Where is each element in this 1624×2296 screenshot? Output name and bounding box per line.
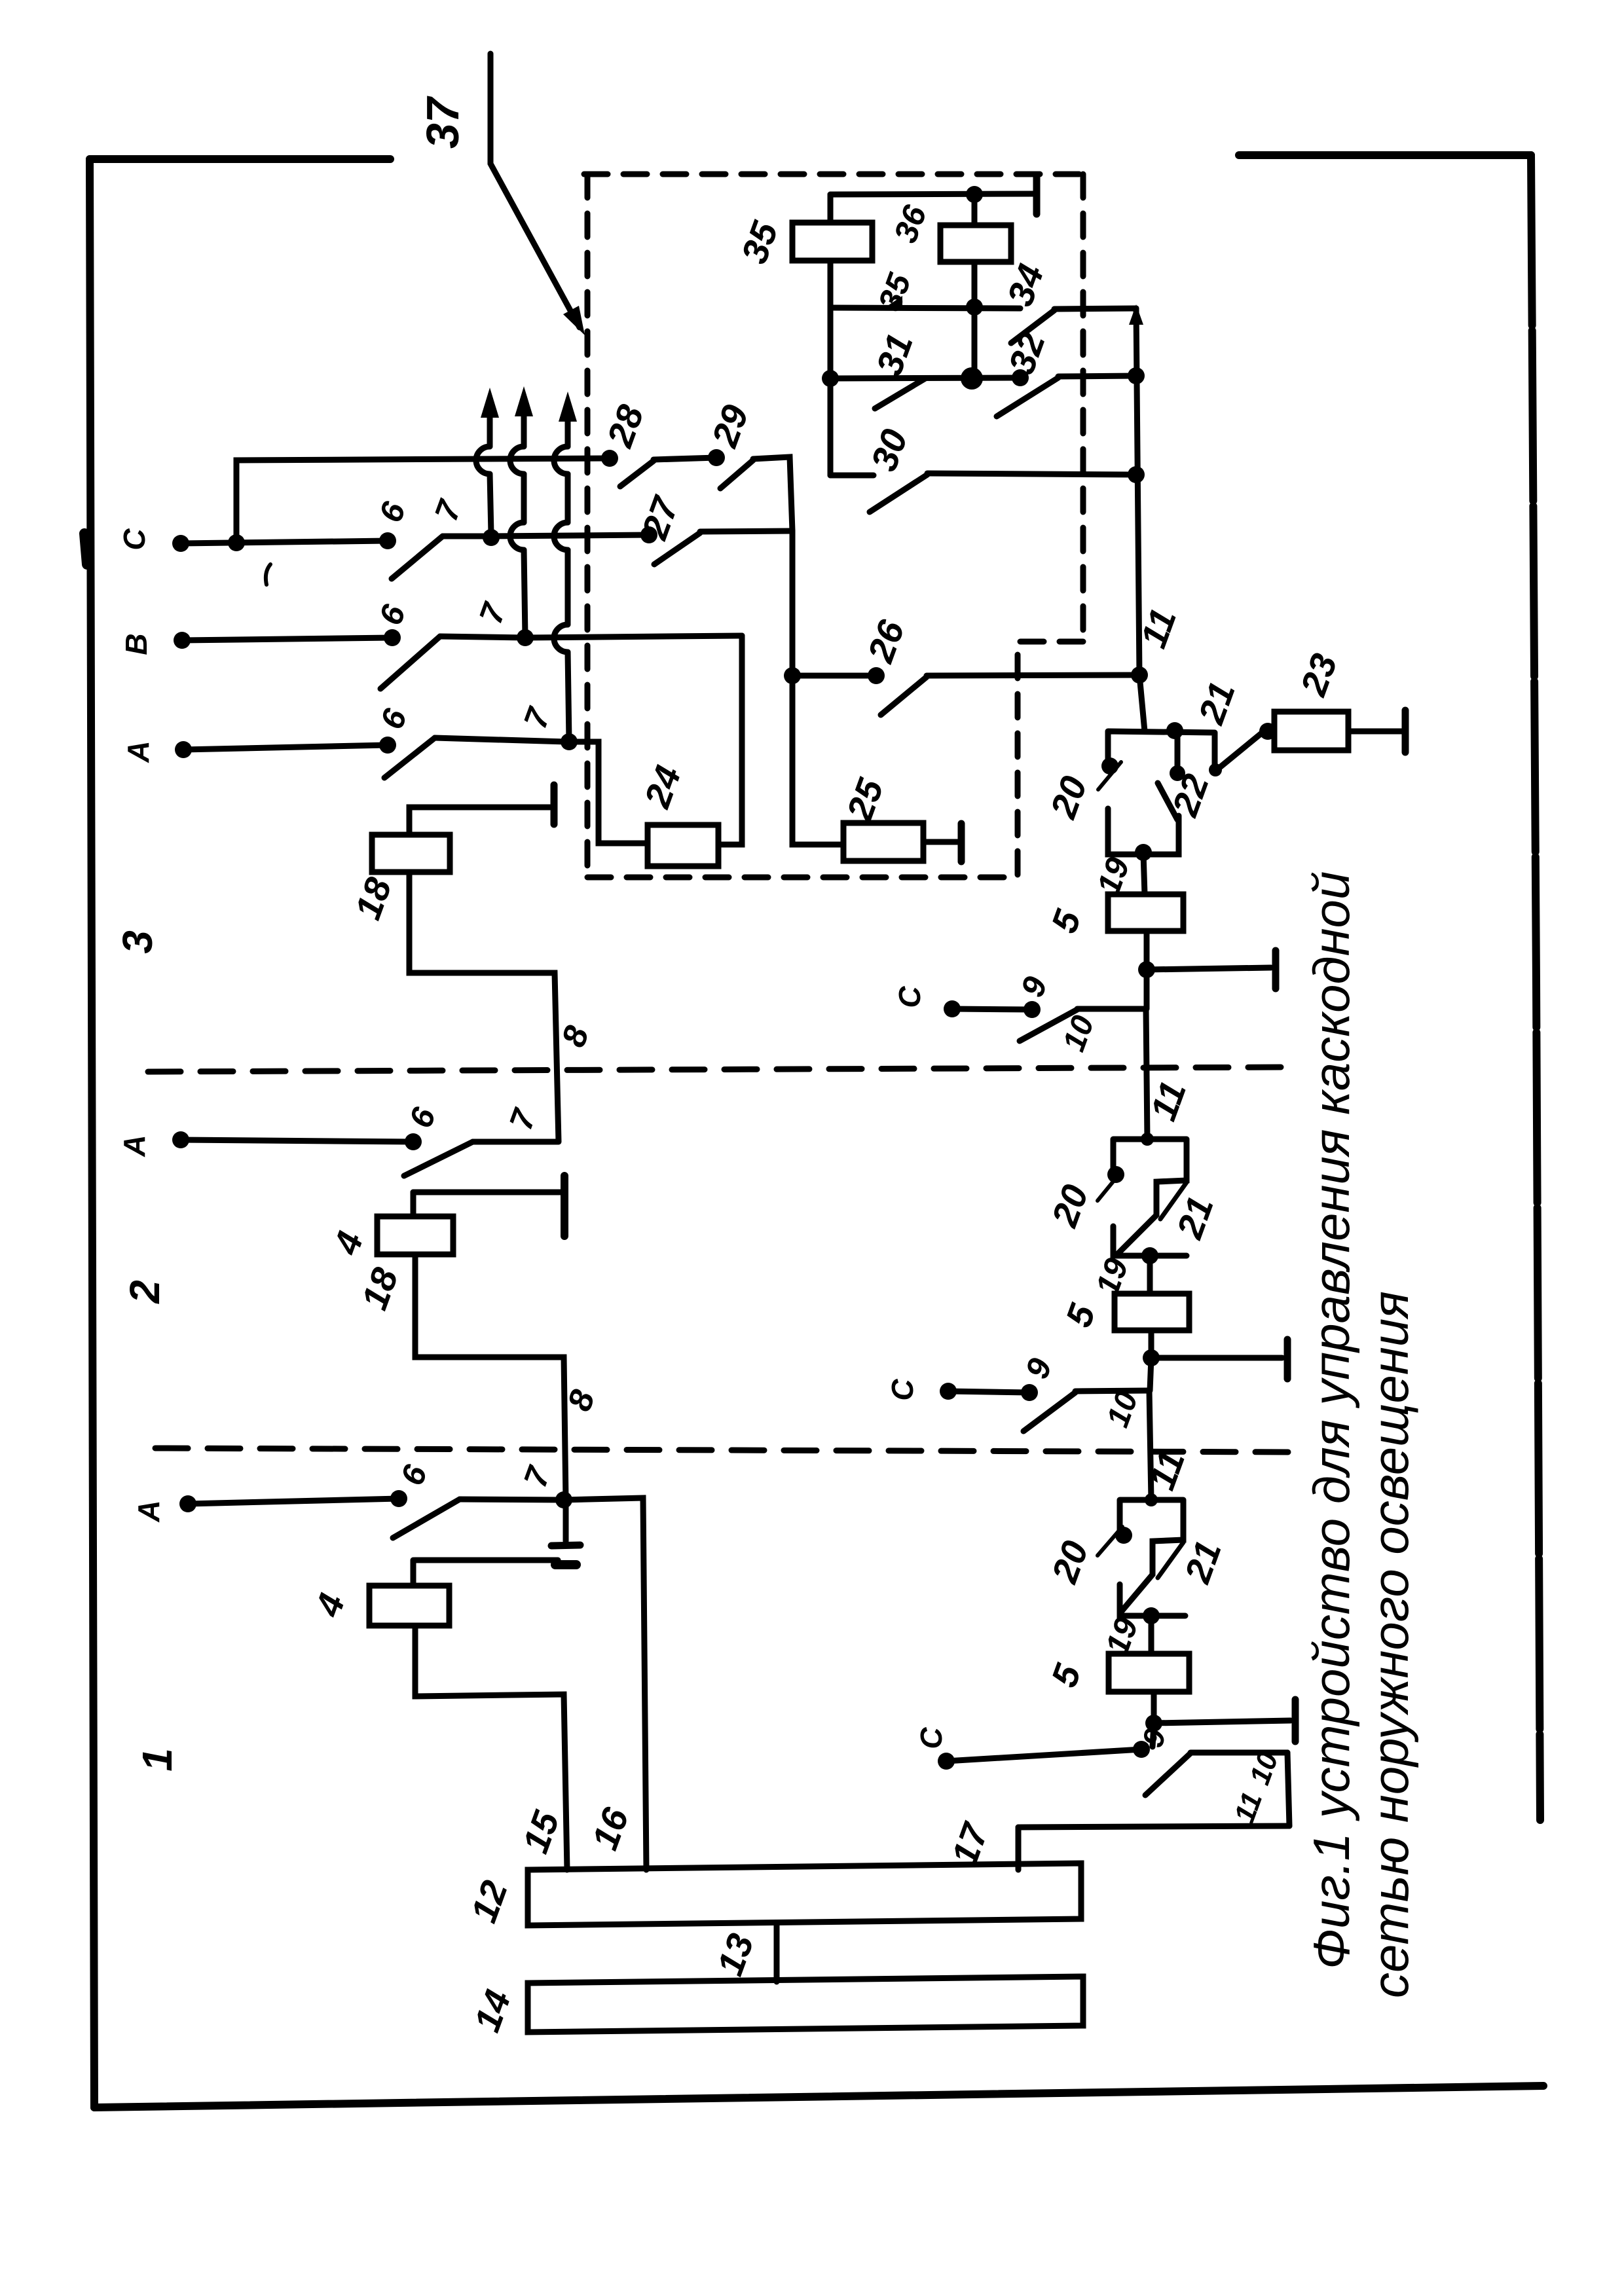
node junction wire 26 and wire 11 — [1131, 666, 1148, 683]
ground bar of rail — [1033, 177, 1041, 214]
wire 7 (section 2) — [473, 1139, 558, 1145]
node contact of switch 32 — [1012, 369, 1029, 386]
terminal A — [175, 741, 192, 758]
arrowhead of lead 37 — [563, 306, 585, 335]
svg-text:1: 1 — [134, 1748, 181, 1772]
node junction A (section 1) — [555, 1491, 572, 1508]
ground bar (section 1 junction) — [551, 1545, 580, 1546]
node contact of switch 6 (phase A) — [379, 737, 396, 754]
node contact of switch 26 — [868, 667, 885, 684]
relay contact block 20/21 (section 2) — [1113, 1139, 1187, 1256]
switch 6 blade (phase C) — [392, 536, 443, 579]
wire 23 to ground — [1348, 729, 1403, 735]
vertical wire from 27/29 down to relay 25 — [792, 531, 843, 845]
V3 hop over bus — [554, 446, 568, 474]
switch 6 blade (phase B) — [380, 636, 440, 689]
resistor 5 (section 2) — [1115, 1294, 1189, 1330]
wire from 36 down to line 32 — [972, 307, 978, 378]
wire 32 line left part — [830, 378, 1020, 378]
V3 lower segment — [568, 652, 569, 740]
terminal A (section 2) — [172, 1131, 189, 1148]
dashed divider between section 2 and section 1 — [155, 1448, 1293, 1452]
switch 21 blade to resistor 23 — [1217, 731, 1264, 770]
ground bar (section 3 relay) — [1272, 951, 1280, 989]
V1 lower segment — [490, 474, 491, 534]
dashed divider between section 3 and section 2 — [148, 1067, 1283, 1072]
svg-text:37: 37 — [417, 96, 468, 149]
transformer lead V1 with arrow — [487, 401, 493, 446]
dashed box 37 right edge upper — [1080, 174, 1086, 642]
switch 6 blade (section 1) — [393, 1499, 460, 1538]
frame right border — [1531, 155, 1540, 1820]
V3 segment — [565, 474, 571, 522]
wire 7 (section 1) — [460, 1499, 564, 1500]
wire coil 4 bottom to lead 15 — [415, 1626, 567, 1870]
wire 11 to section 2 relay — [1146, 1009, 1147, 1139]
resistor 5 (section 3) — [1108, 894, 1183, 931]
wire coil top stub (section 1) — [411, 1560, 416, 1586]
line block 14 — [528, 1977, 1083, 2032]
resistor 23 — [1274, 712, 1348, 750]
svg-text:C: C — [914, 1727, 948, 1749]
wire C to switch 9 (section 1) — [946, 1749, 1141, 1761]
ground bar (section 1 relay) — [1292, 1700, 1299, 1741]
wire 35 top — [828, 194, 834, 223]
transformer lead V3 with arrow — [565, 405, 571, 446]
switch 32 blade — [997, 378, 1058, 416]
node contact 21 — [1259, 723, 1276, 740]
node contact of switch 6 (phase C) — [379, 532, 396, 549]
wire phase A (section 1) — [188, 1499, 399, 1504]
wire bus to switch 28 — [236, 458, 610, 543]
svg-text:C: C — [893, 986, 927, 1008]
wire from switch 29 to corner — [753, 457, 792, 531]
relay contact block 20/21/22 (section 3) — [1108, 731, 1215, 854]
svg-text:A: A — [132, 1500, 166, 1522]
node ground junction (section 2) — [1143, 1349, 1160, 1366]
ground wire (section 2 relay) — [1151, 1355, 1282, 1361]
ground wire from coil 18 top (section 2) — [413, 1190, 561, 1195]
node junction wire 26 — [784, 667, 801, 684]
terminal C (section 2 pickup) — [940, 1383, 957, 1400]
line block 12 — [528, 1863, 1081, 1925]
node contact switch 6 (section 1) — [390, 1490, 407, 1507]
wire to switch 9 contact (section 3) — [1144, 970, 1150, 1009]
wire phase A — [183, 745, 388, 750]
V2 lower segment — [524, 550, 525, 636]
node contact switch 9 (section 2) — [1021, 1384, 1038, 1401]
node contact switch 9 (section 3) — [1024, 1001, 1041, 1018]
V2 hop over wire C — [510, 522, 524, 550]
switch 28 blade — [620, 461, 654, 486]
wire from switch 27 to vertical — [700, 531, 792, 532]
dashed box 37 step edge — [1018, 642, 1083, 877]
lead 17 down to line 12 — [1016, 1827, 1022, 1870]
ground wire from coil top (section 1) — [415, 1558, 558, 1563]
wire 18 bottom to wire 8 (section 3) — [409, 872, 559, 1142]
node junction V1 wire C — [483, 529, 500, 546]
connector 13 — [774, 1925, 780, 1982]
dashed box 37 bottom edge — [587, 875, 1018, 881]
wire 5 down (section 3) — [1144, 931, 1150, 970]
node junction left vertical line 32 — [822, 370, 839, 387]
node contact switch 9 (section 1) — [1133, 1741, 1150, 1758]
wire 35 bottom — [828, 261, 834, 308]
node junction wire 30 bus 11 — [1128, 466, 1145, 483]
wire 10 (section 1) — [1190, 1750, 1287, 1756]
ground wire (section 3 relay) — [1147, 968, 1271, 970]
wire 32 to bus 11 — [1058, 376, 1136, 376]
node junction V2 wire B — [517, 629, 534, 646]
bus wire 11 (section 3 feed) — [1136, 308, 1145, 731]
ground wire (section 1 relay) — [1154, 1721, 1291, 1723]
wire 34 line left part — [830, 308, 1020, 308]
relay coil 4 (section 1) — [369, 1586, 449, 1626]
wire 30 to bus 11 — [927, 473, 1136, 475]
wire corner 10 down — [1287, 1753, 1289, 1826]
wire 25 to ground — [923, 839, 957, 845]
wire C continuation to switch 27 — [491, 535, 649, 536]
wire 36 top — [972, 194, 978, 225]
resistor 35 — [792, 223, 872, 261]
wire between switches 28 and 29 — [654, 458, 716, 460]
blotch on left border — [84, 534, 87, 564]
ground bar of 23 — [1402, 710, 1409, 752]
switch 6 blade (section 2) — [404, 1142, 473, 1176]
V1 hop over bus — [476, 446, 490, 474]
svg-text:2: 2 — [121, 1280, 168, 1304]
wire 16 from junction to line 12 — [564, 1498, 646, 1870]
wire 7 (phase B to V2) — [440, 636, 525, 638]
wire to lead 17 — [1018, 1826, 1289, 1827]
wire phase C — [181, 541, 388, 543]
ground bar 2 (section 1 junction) — [555, 1560, 576, 1569]
wire 7 (phase A to V3) — [435, 738, 566, 742]
top rail of 35/36 — [830, 194, 1037, 194]
dashed box 37 left edge — [585, 174, 591, 877]
wire 11 to section 1 relay — [1149, 1391, 1151, 1500]
wire to switch 9 contact (section 2) — [1150, 1358, 1151, 1391]
node junction V3 wire A — [561, 733, 578, 750]
svg-text:3: 3 — [114, 930, 161, 954]
transformer lead V2 with arrow — [521, 399, 527, 446]
wire A to coil 24 left — [569, 742, 648, 843]
wire 26 to bus 11 — [927, 675, 1139, 676]
switch 6 blade (phase A) — [384, 738, 435, 778]
switch 9 blade (section 2) — [1024, 1393, 1075, 1431]
terminal C — [172, 535, 189, 552]
switch 26 blade — [881, 677, 927, 715]
frame left border — [90, 159, 94, 2107]
wire phase A (section 2) — [181, 1140, 413, 1142]
node ground junction (section 3) — [1138, 961, 1155, 978]
svg-text:C: C — [885, 1379, 919, 1401]
frame top border left segment — [90, 155, 390, 163]
switch 9 blade (section 1) — [1145, 1753, 1190, 1795]
ground bar (section 3 coil) — [551, 785, 558, 824]
node ground junction (section 1) — [1145, 1715, 1162, 1732]
dashed box 37 top edge — [584, 172, 1083, 177]
wire 5 down (section 1) — [1151, 1692, 1157, 1723]
node junction of 36 lead on line 34 — [966, 299, 983, 316]
wire B continuation — [525, 636, 742, 638]
V3 segment — [565, 550, 571, 625]
relay coil 25 — [843, 823, 923, 861]
node contact of switch 28 — [601, 450, 618, 467]
wire C to switch 9 (section 3) — [952, 1009, 1032, 1010]
switch 27 blade — [654, 533, 700, 564]
switch 9 blade (section 3) — [1020, 1010, 1077, 1041]
wire coil 18 bottom to wire 8 (section 2) — [415, 1254, 566, 1500]
svg-text:C: C — [117, 528, 151, 551]
node junction wire 32 bus 11 — [1128, 367, 1145, 384]
terminal C (section 3 pickup) — [944, 1000, 961, 1017]
svg-text:A: A — [121, 740, 155, 763]
switch 34 blade — [1011, 310, 1054, 343]
switch 21 blade (section 1) — [1158, 1542, 1183, 1578]
wire to switch 9 contact (section 1) — [1153, 1723, 1154, 1747]
switch 31 blade — [875, 378, 925, 409]
stray mark — [266, 564, 270, 585]
resistor 5 (section 1) — [1109, 1654, 1189, 1692]
node contact of switch 29 — [708, 449, 725, 466]
svg-text:A: A — [117, 1135, 151, 1157]
wire phase B — [182, 638, 392, 640]
switch 30 blade — [870, 475, 927, 512]
ground bar of 25 — [958, 824, 965, 862]
relay contact block 20/21 (section 1) — [1120, 1500, 1185, 1616]
inner left vertical wire — [828, 308, 834, 475]
node: junction of bus with wire C — [228, 534, 245, 551]
resistor 36 — [940, 225, 1011, 262]
node junction rail and 36 — [966, 186, 983, 203]
wire 19 (section 2) — [1147, 1256, 1153, 1294]
switch 29 blade — [720, 460, 753, 488]
ground stub (section 1 junction) — [563, 1500, 569, 1541]
wire 30 line left corner — [830, 473, 874, 479]
wire 10 (section 3) — [1077, 1006, 1145, 1012]
ground bar (section 2 junction) — [561, 1176, 568, 1236]
switch 21 blade (section 2) — [1160, 1182, 1187, 1219]
wire coil 24 right to wire B — [718, 636, 742, 845]
wire C to switch 9 (section 2) — [948, 1391, 1029, 1393]
lead line of node 37 — [490, 54, 580, 327]
wire 10 (section 2) — [1075, 1391, 1148, 1391]
V2 hop over bus — [510, 446, 524, 474]
terminal A (section 1) — [179, 1495, 196, 1512]
wire 36 bottom — [972, 262, 978, 307]
relay coil 18 (section 3) — [372, 835, 450, 872]
wire 7 (phase C to V1) — [443, 534, 490, 539]
wire 26 left part — [792, 673, 876, 679]
node contact of switch 6 (phase B) — [384, 629, 401, 646]
V2 middle segment — [521, 474, 527, 522]
wire 19 (section 3) — [1143, 853, 1145, 894]
wire 19 (section 1) — [1149, 1616, 1154, 1654]
V3 hop over wire C — [554, 522, 568, 550]
svg-text:B: B — [119, 633, 153, 655]
relay coil 24 — [648, 825, 718, 866]
frame top border right segment — [1239, 151, 1531, 159]
wire 18 top to ground (section 3) — [409, 807, 550, 835]
node contact of switch 27 — [640, 526, 657, 543]
relay coil 18/4 (section 2) — [377, 1216, 453, 1254]
node contact switch 6 (section 2) — [405, 1133, 422, 1150]
terminal C (section 1 pickup) — [938, 1753, 955, 1770]
ground bar (section 2 relay) — [1284, 1339, 1291, 1379]
wire 34 to bus 11 — [1054, 308, 1136, 309]
svg-text:Фиг.1 устройство для управлени: Фиг.1 устройство для управления каскодно… — [1302, 871, 1360, 1969]
svg-text:сетью норужного освещения: сетью норужного освещения — [1361, 1291, 1419, 1998]
V3 hop over wire B — [554, 625, 568, 652]
wire 5 down (section 2) — [1149, 1330, 1154, 1358]
arrowhead on bus 11 top — [1129, 304, 1143, 325]
frame bottom border — [94, 2086, 1543, 2107]
node blob junction 36 line 32 — [961, 367, 983, 390]
wire coil top stub (section 2) — [411, 1192, 416, 1216]
terminal B — [174, 632, 191, 649]
